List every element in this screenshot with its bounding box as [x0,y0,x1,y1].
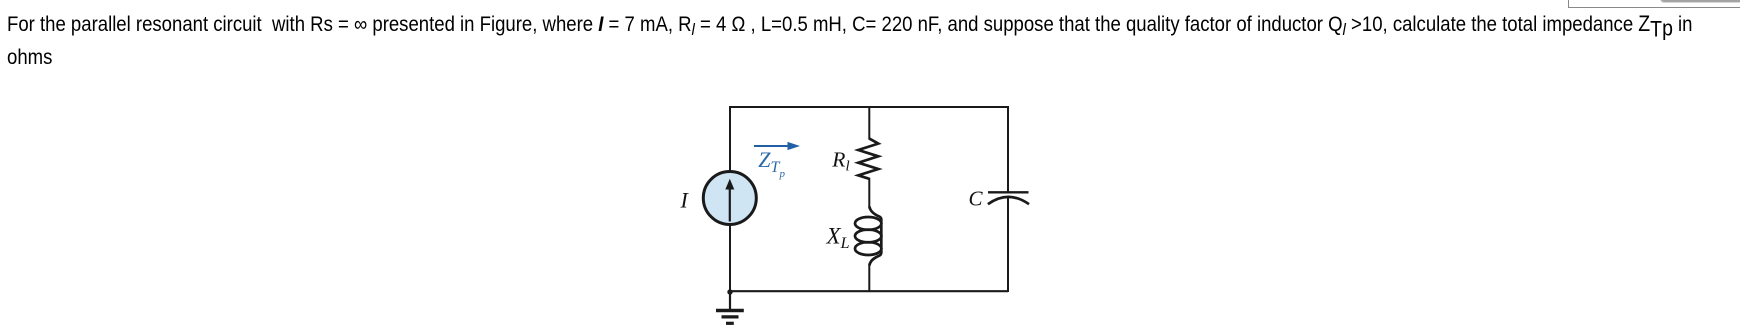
answer panel bottom edge (top-right fragment) [1568,0,1740,8]
resistor Rl [858,139,878,179]
inductor XL [855,207,881,266]
label Rl [831,147,849,174]
svg-text:I: I [680,188,690,213]
wire: middle branch upper [868,106,870,140]
svg-text:C: C [969,187,984,211]
label ZTp [758,147,785,180]
capacitor C [988,192,1029,204]
wire: top rail [729,106,1009,108]
wire: right branch upper [1007,106,1009,192]
svg-text:ZTp: ZTp [758,147,785,180]
wire: middle branch lower [868,264,870,293]
wire: left branch upper [729,106,731,172]
junction dot [727,289,732,294]
wire: middle branch between R and L [868,178,870,209]
wire: bottom rail [730,290,1008,292]
impedance arrow ZTp [754,142,800,150]
ground [716,292,744,323]
question text [7,8,1740,74]
label XL [826,223,850,252]
svg-text:Rl: Rl [831,147,849,174]
label I [680,188,690,213]
svg-text:XL: XL [826,223,850,252]
label C [969,187,984,211]
wire: right branch lower [1007,198,1009,293]
current source I [703,172,756,225]
wire: left branch lower [729,225,731,293]
button/scrollbar fragment (top-right) [1660,0,1740,3]
